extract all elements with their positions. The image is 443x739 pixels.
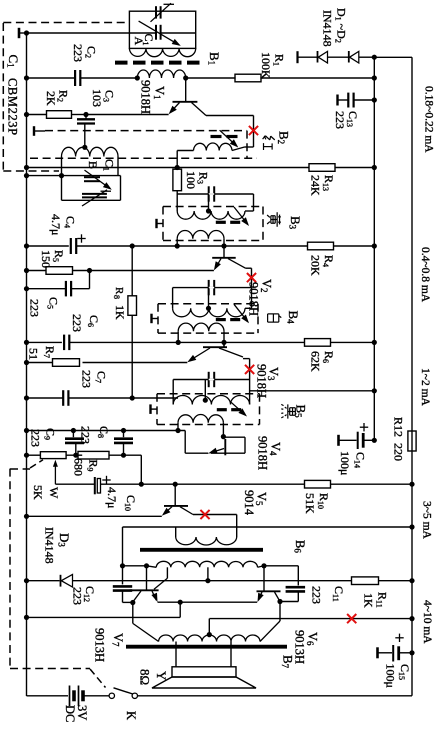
IFT B5 resonant capacitor wire — [173, 379, 249, 381]
resistor R11 1K — [352, 577, 379, 585]
V7 collector to B7 primary left — [132, 603, 134, 624]
IFT B3 resonant capacitor — [208, 186, 210, 201]
bias wire D3 y=580.7 — [27, 580, 60, 582]
oscillator shield ground bar — [33, 126, 35, 136]
IFT B5 shield box dashed — [157, 393, 260, 395]
IFT B5 primary tap — [203, 398, 208, 403]
red X test mark on supply wire — [347, 614, 356, 623]
B6 secondary center tap — [207, 567, 209, 580]
IFT B4 left vertical — [172, 288, 174, 309]
svg-text:DC: DC — [63, 705, 77, 722]
svg-text:9018H: 9018H — [255, 364, 269, 398]
svg-text:223: 223 — [28, 429, 42, 447]
capacitor C14 100u with ground — [337, 435, 340, 446]
bias wire y=167.5 rail to mid rail — [27, 167, 310, 169]
IFT B5 primary winding — [173, 396, 249, 405]
wire V1 emitter to R2/C3 node — [86, 114, 169, 116]
IFT B5 adjust arrow — [230, 401, 246, 415]
IFT B5 core dashes — [217, 408, 227, 411]
svg-text:103: 103 — [90, 89, 104, 107]
svg-text:223: 223 — [333, 111, 347, 129]
svg-text:62K: 62K — [308, 351, 322, 372]
tap dot on tank winding — [82, 145, 87, 150]
svg-text:K: K — [124, 711, 138, 720]
IFT B3 shield ground bar — [155, 219, 157, 228]
driver transformer B6 primary — [123, 526, 237, 528]
svg-text:223: 223 — [70, 587, 84, 605]
capacitor C3 103 — [85, 115, 87, 120]
detector wire y=430.5 — [27, 430, 186, 432]
B2 oscillator tank winding — [62, 147, 119, 156]
B5 secondary left end down — [177, 423, 179, 431]
resistor R2 2K — [27, 114, 47, 116]
bottom wire switch to right rail — [138, 695, 413, 697]
capacitor C13 223 with ground bar — [336, 95, 338, 106]
capacitor C10 4.7u electrolytic — [94, 477, 96, 494]
svg-text:20K: 20K — [308, 255, 322, 276]
svg-text:100K: 100K — [259, 52, 273, 79]
B2 core dashes — [211, 135, 222, 138]
ferrite rod of B1 (thick dashed) — [115, 61, 202, 65]
svg-text:1K: 1K — [361, 593, 375, 608]
node: C2 to B1 secondary — [135, 75, 140, 80]
svg-text:51: 51 — [26, 348, 40, 360]
svg-text:4.7μ: 4.7μ — [49, 214, 63, 235]
oscillator shield dashed right edge — [246, 131, 248, 159]
V5 emitter wire to rail — [27, 515, 162, 517]
resistor R1 100K — [235, 74, 261, 82]
svg-text:680: 680 — [71, 458, 85, 476]
tank right end down to box — [117, 157, 119, 176]
B2 feedback winding — [194, 143, 233, 151]
resistor R10 51K — [305, 480, 331, 488]
svg-text:W: W — [47, 487, 61, 499]
B6 secondary winding — [156, 561, 257, 567]
resistor R13 24K — [309, 164, 335, 172]
resistor R9 680 — [78, 451, 109, 459]
variable capacitor C1-A plates — [155, 25, 157, 40]
label hong (red) for B2 — [263, 136, 275, 150]
supply wire B5 to mid rail — [250, 390, 375, 392]
svg-text:3~5 mA: 3~5 mA — [420, 501, 432, 540]
tuning capacitor section C1-A box — [129, 11, 195, 48]
left ground rail (vertical bus at x=26.5) — [26, 33, 28, 696]
svg-text:1~2 mA: 1~2 mA — [419, 368, 431, 407]
svg-text:A: A — [132, 37, 146, 46]
V1 collector wire into B2 loop — [206, 115, 254, 117]
trimmer on C1-B — [82, 193, 107, 195]
IFT B4 primary tap — [206, 306, 211, 311]
transistor V7 9013H — [146, 566, 148, 591]
switch K — [109, 693, 114, 698]
B7 core bar — [126, 645, 287, 649]
svg-text:24K: 24K — [308, 175, 322, 196]
svg-text:223: 223 — [79, 370, 93, 388]
IFT B3 primary tap — [206, 208, 211, 213]
label bai (white) for B4 — [268, 314, 282, 322]
ground terminal at top of left rail — [18, 28, 21, 38]
capacitor C4 4.7u in AGC wire — [70, 238, 72, 254]
wire B6 primary left down — [122, 527, 124, 566]
antenna coil B1 secondary — [137, 70, 185, 78]
transistor V2 9018H — [212, 257, 236, 259]
capacitor C5 223 bypass loop — [89, 271, 91, 289]
svg-text:51K: 51K — [303, 493, 317, 514]
emitter bus to ground rail — [179, 602, 181, 617]
IFT B4 shield ground bar — [150, 314, 152, 324]
svg-text:IN4148: IN4148 — [42, 527, 56, 564]
diode D3 IN4148 — [60, 575, 62, 587]
wire to V7 base — [123, 565, 147, 567]
V5 collector wire — [193, 514, 237, 516]
wire V5 collector rail junction — [409, 524, 414, 529]
svg-text:223: 223 — [309, 586, 323, 604]
emitter wire V3 to R7 — [83, 362, 188, 364]
transistor V4 9018H diode-connected — [221, 434, 226, 439]
red X test mark on V1 collector — [249, 126, 258, 135]
red X test mark on V3 collector — [245, 365, 254, 374]
dashed border lower left — [9, 469, 11, 669]
IFT B4 core dashes — [216, 318, 226, 321]
IFT B3 secondary winding — [177, 230, 224, 238]
audio wire with C10 — [55, 483, 94, 485]
resistor R7 51 — [27, 362, 53, 364]
svg-text:8 1K: 8 1K — [112, 295, 127, 320]
IFT B5 secondary winding — [178, 415, 223, 423]
wire y78 rail to C2 — [27, 77, 75, 79]
svg-text:0.18~0.22 mA: 0.18~0.22 mA — [422, 86, 434, 153]
IFT B3 right vertical — [253, 194, 255, 211]
IFT B3 core dashes — [216, 221, 226, 224]
V2 collector wire — [246, 267, 252, 269]
resistor R6 62K — [305, 339, 331, 347]
svg-text:9018H: 9018H — [256, 436, 270, 470]
IFT B5 resonant capacitor — [208, 372, 210, 387]
capacitor C6 223 — [63, 335, 65, 351]
wire R1 to mid rail — [260, 77, 374, 79]
capacitor C8 223 thick — [123, 431, 125, 438]
IFT B4 secondary winding — [178, 323, 224, 331]
mid bias rail (vertical bus at x=374) — [373, 57, 375, 441]
svg-text:R12 220: R12 220 — [391, 417, 405, 461]
label hei (black) for B5 — [281, 404, 295, 418]
node V1 base — [183, 75, 188, 80]
node B5sec-left on detector wire — [175, 428, 180, 433]
IFT B5 shield ground bar — [149, 404, 151, 414]
capacitor C12 223 thick — [122, 566, 124, 585]
B4 secondary right to V3 base — [223, 331, 225, 347]
IFT B4 resonant capacitor — [208, 280, 210, 295]
V6 collector to B7 primary right — [279, 602, 281, 622]
IFT B4 right vertical — [251, 288, 253, 309]
speaker Y 8ohm — [175, 642, 177, 667]
svg-text:Y: Y — [154, 671, 169, 681]
resistor R3 100 — [173, 169, 182, 191]
right supply rail (vertical bus at x=412) — [411, 57, 413, 696]
svg-text:0.4~0.8 mA: 0.4~0.8 mA — [419, 247, 431, 303]
B3 secondary right to V2 base — [223, 239, 225, 258]
resistor R12 220 in right rail — [408, 431, 416, 451]
B5 secondary right to V4 base — [222, 423, 224, 437]
svg-text:8Ω: 8Ω — [138, 669, 153, 685]
svg-text:9018H: 9018H — [247, 282, 261, 316]
svg-text:100: 100 — [184, 171, 198, 189]
resistor R4 20K — [308, 242, 334, 250]
emitter wire V2 to R5/C5 — [90, 270, 214, 272]
battery DC 3V — [27, 695, 69, 697]
label huang (yellow) for B3 — [267, 212, 281, 227]
B2 adjust arrow — [220, 130, 237, 146]
diode D1 IN4148 — [317, 51, 319, 63]
capacitor C7 223 — [27, 397, 64, 399]
resistor R5 150 — [27, 270, 47, 272]
B3 secondary left end to AGC wire — [176, 239, 178, 246]
emitter bus V7-V6 — [158, 601, 258, 603]
IFT B4 shield box dashed — [158, 303, 258, 305]
svg-text:4.7μ: 4.7μ — [105, 487, 119, 508]
svg-text:9014: 9014 — [242, 490, 256, 516]
variable capacitor C1-B plates — [84, 176, 100, 178]
svg-text:2K: 2K — [44, 91, 58, 106]
oscillator shield dashed top — [45, 130, 247, 132]
IFT B4 resonant capacitor wire — [173, 287, 252, 289]
capacitor C11 223 thick — [297, 566, 299, 586]
IFT B5 right vertical — [249, 380, 251, 405]
B6 core bar — [140, 548, 263, 552]
svg-text:IN4148: IN4148 — [320, 10, 334, 47]
IFT B4 primary winding — [173, 308, 245, 317]
red X test mark on V5 collector — [200, 510, 209, 519]
svg-text:D1 ~D2: D1 ~D2 — [334, 8, 349, 43]
svg-text:150: 150 — [39, 250, 53, 268]
IFT B4 adjust arrow — [234, 304, 248, 321]
B4 secondary left end to bias wire — [177, 331, 179, 342]
capacitor C9 223 thick — [72, 431, 74, 438]
svg-text:223: 223 — [70, 314, 84, 332]
wire ground rail to C1-A — [27, 32, 157, 34]
IFT B3 resonant capacitor wire — [177, 193, 253, 195]
transistor V1 9018H — [185, 78, 187, 102]
wire C1-A plates to box right edge — [161, 32, 196, 34]
IFT B3 primary winding — [177, 211, 245, 219]
wire V1 base node to R1 — [186, 77, 236, 79]
svg-text:223: 223 — [71, 44, 85, 62]
IFT B5 left vertical — [172, 380, 174, 405]
svg-text:4~10 mA: 4~10 mA — [421, 600, 433, 644]
svg-text:R: R — [113, 287, 125, 295]
IFT B3 adjust arrow — [234, 207, 248, 224]
red X test mark on V2 collector — [247, 273, 256, 282]
svg-text:100μ: 100μ — [383, 664, 397, 688]
collector tap V7 to B6 secondary — [154, 578, 167, 589]
svg-text:CBM223P: CBM223P — [6, 78, 20, 136]
svg-text:9018H: 9018H — [139, 80, 153, 114]
svg-text:9013H: 9013H — [93, 628, 107, 662]
transistor V5 9014 — [174, 484, 176, 506]
IFT B3 shield box dashed — [163, 206, 263, 208]
svg-text:223: 223 — [27, 299, 41, 317]
volume potentiometer W 5K — [27, 454, 41, 456]
oscillator shield dashed bottom — [30, 157, 257, 159]
wire B6sec right to C11 — [264, 565, 298, 567]
svg-text:100μ: 100μ — [338, 451, 352, 475]
IFT B3 left vertical — [176, 194, 178, 211]
B7 center tap — [207, 632, 212, 637]
dashed gang/border line upper left — [2, 23, 4, 172]
svg-text:223: 223 — [78, 426, 92, 444]
transistor V3 9018H — [203, 346, 227, 348]
capacitor C15 100u with ground — [376, 647, 379, 658]
transistor V6 9013H — [263, 566, 265, 592]
C1-B box — [61, 176, 63, 201]
tank left end down to box — [61, 157, 63, 176]
diodes D1 D2 terminal bar — [296, 51, 298, 63]
resistor R8 1K vertical — [131, 246, 133, 296]
supply wire B7 tap to right rail — [209, 618, 412, 620]
AGC wire y=246 rail to R4 to mid rail — [27, 245, 69, 247]
antenna coil B1 primary — [129, 48, 195, 56]
wire top: mid rail to right rail corner — [374, 56, 412, 58]
trimmer capacitor on C1-A — [155, 6, 157, 18]
wire rail to C1B box top — [27, 175, 121, 177]
svg-text:5K: 5K — [31, 485, 45, 500]
output transformer B7 primary — [159, 635, 260, 642]
svg-text:3V: 3V — [75, 705, 89, 720]
diode D2 IN4148 — [348, 51, 350, 63]
bias wire y=342 rail to R6 — [27, 341, 62, 343]
capacitor C2 223 — [74, 70, 76, 86]
